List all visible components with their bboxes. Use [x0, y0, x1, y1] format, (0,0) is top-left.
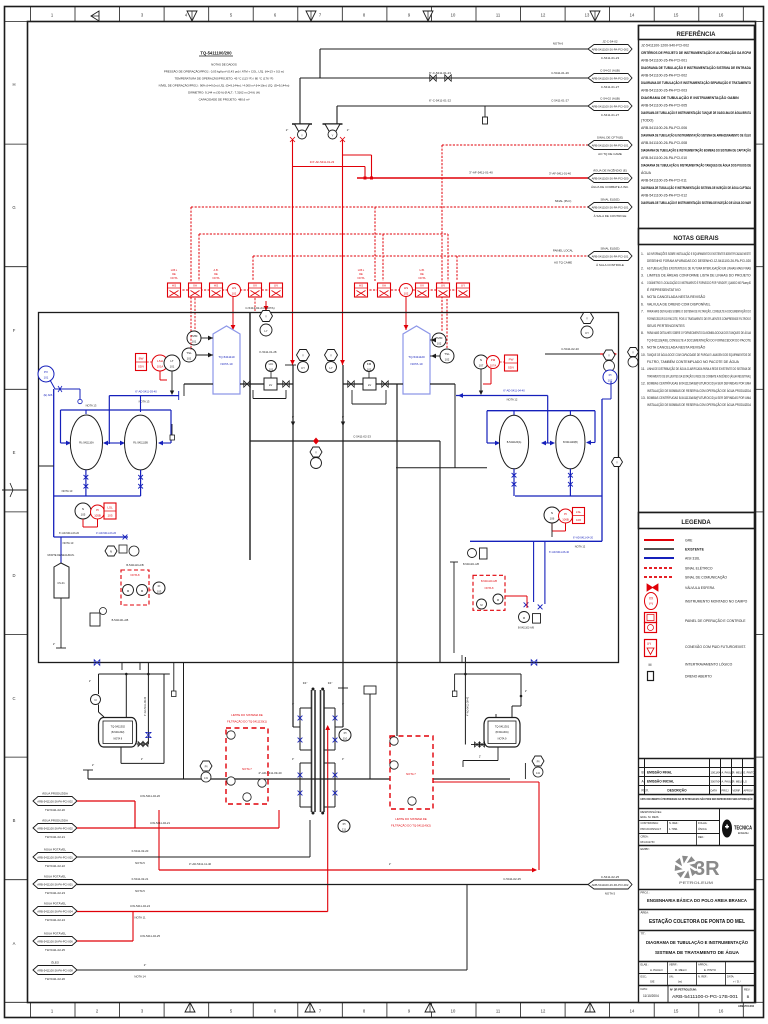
- svg-text:CONEXÃO COM P&ID FUTURO/EXIST.: CONEXÃO COM P&ID FUTURO/EXIST.: [685, 644, 746, 649]
- svg-text:FIL-5411110A: FIL-5411110A: [79, 442, 94, 445]
- svg-text:EMISSÃO FINAL: EMISSÃO FINAL: [647, 770, 672, 775]
- svg-text:PI: PI: [537, 760, 540, 764]
- svg-text:101: 101: [232, 292, 237, 296]
- svg-text:2": 2": [141, 758, 143, 761]
- svg-text:XV: XV: [420, 284, 424, 288]
- svg-text:102: 102: [445, 358, 450, 362]
- svg-text:Y: Y: [301, 134, 303, 138]
- svg-text:3": 3": [292, 702, 294, 706]
- svg-text:PARA MAIS DETALHES SOBRE O SIS: PARA MAIS DETALHES SOBRE O SISTEMA DE FI…: [647, 309, 751, 314]
- svg-text:105B: 105B: [94, 514, 101, 518]
- svg-text:AO TQ DE CAME: AO TQ DE CAME: [598, 152, 622, 156]
- svg-text:10: 10: [451, 1009, 456, 1014]
- svg-text:10.: 10.: [641, 353, 646, 357]
- svg-text:ÁGUA POTÁVEL: ÁGUA POTÁVEL: [44, 902, 67, 906]
- svg-text:A. PAULO: A. PAULO: [722, 780, 734, 784]
- svg-text:LEGENDA: LEGENDA: [681, 520, 711, 526]
- svg-text:NOTA 13: NOTA 13: [62, 489, 73, 493]
- svg-text:MORTE DE SEGURAN.: MORTE DE SEGURAN.: [48, 554, 75, 557]
- svg-text:VALVULA DE DRENO COM DISPONÍVE: VALVULA DE DRENO COM DISPONÍVEL: [647, 302, 711, 306]
- svg-text:XV: XV: [253, 284, 257, 288]
- svg-text:11.: 11.: [641, 367, 646, 371]
- svg-text:ARB-5411100-26-PA-PCI-010: ARB-5411100-26-PA-PCI-010: [641, 156, 687, 160]
- svg-text:DIAGRAMA DE TUBULAÇÃO E INSTRU: DIAGRAMA DE TUBULAÇÃO E INSTRUMENTAÇÃO T…: [641, 110, 751, 115]
- svg-text:ARB-PCI-004: ARB-PCI-004: [738, 1004, 755, 1008]
- svg-text:10/11/04: 10/11/04: [711, 771, 721, 775]
- svg-text:À SALA CONTROLE: À SALA CONTROLE: [596, 263, 624, 267]
- svg-text:DIAGRAMA DE TUBULAÇÃO E INSTRU: DIAGRAMA DE TUBULAÇÃO E INSTRUMENTAÇÃO S…: [641, 133, 751, 138]
- svg-text:AS INFORMAÇÕES SOBRE INSTALAÇÃ: AS INFORMAÇÕES SOBRE INSTALAÇÃO E EQUIPA…: [647, 251, 751, 256]
- svg-text:LV: LV: [269, 383, 272, 387]
- svg-text:DESENHO FORAM APURADAS DO DESE: DESENHO FORAM APURADAS DO DESENHO JZ-541…: [647, 259, 751, 263]
- svg-text:FI: FI: [158, 584, 161, 588]
- svg-text:LSL: LSL: [107, 506, 113, 510]
- svg-text:XX: XX: [649, 597, 654, 601]
- svg-text:NOTA 8: NOTA 8: [130, 573, 140, 577]
- svg-text:ARB-5411100-26-PA-PCI-006: ARB-5411100-26-PA-PCI-006: [37, 939, 73, 943]
- svg-text:DIAGRAMA DE TUBULAÇÃO E INSTRU: DIAGRAMA DE TUBULAÇÃO E INSTRUMENTAÇÃO S…: [641, 200, 751, 205]
- svg-text:ÁGUA POTÁVEL: ÁGUA POTÁVEL: [44, 932, 67, 936]
- svg-text:14: 14: [630, 13, 635, 18]
- svg-text:LY: LY: [264, 329, 267, 333]
- svg-text:SINAL ELE(E): SINAL ELE(E): [600, 247, 619, 251]
- svg-text:DIAGRAMA DE TUBULAÇÃO E INSTRU: DIAGRAMA DE TUBULAÇÃO E INSTRUMENTAÇÃO S…: [641, 80, 751, 85]
- svg-text:DATA: DATA: [711, 789, 718, 793]
- svg-text:6"-AD-5411-04-20: 6"-AD-5411-04-20: [573, 536, 594, 539]
- svg-text:106B: 106B: [562, 518, 569, 522]
- svg-text:NOTA 13: NOTA 13: [63, 541, 74, 545]
- svg-text:ELAB.:: ELAB.:: [641, 963, 649, 967]
- svg-text:PI: PI: [205, 765, 208, 769]
- svg-text:LSL: LSL: [576, 510, 582, 514]
- svg-text:FIL-5411110B: FIL-5411110B: [133, 442, 148, 445]
- svg-text:DIAGRAMA DE TUBULAÇÃO E INSTRU: DIAGRAMA DE TUBULAÇÃO E INSTRUMENTAÇÃO: [646, 939, 748, 946]
- svg-text:(B-5411301): (B-5411301): [495, 731, 508, 734]
- svg-text:H.B.L: H.B.L: [358, 268, 365, 272]
- svg-text:Y: Y: [265, 315, 267, 319]
- svg-text:RESPONSÁVEL:: RESPONSÁVEL:: [641, 810, 663, 814]
- svg-text:NÍVEL DE OPERAÇÃO/PROJ.: 90% (: NÍVEL DE OPERAÇÃO/PROJ.: 90% (H=9,0m) LÍ…: [159, 83, 290, 88]
- svg-text:FILTRAÇÃO DO TQ-5411130(1): FILTRAÇÃO DO TQ-5411130(1): [227, 719, 267, 724]
- svg-text:H: H: [12, 82, 15, 87]
- svg-text:N: N: [110, 550, 112, 554]
- svg-text:LIMITE DO SISTEMA DE: LIMITE DO SISTEMA DE: [395, 817, 427, 821]
- svg-text:3-W-5411-02-21: 3-W-5411-02-21: [150, 821, 171, 825]
- svg-text:ARB-5411100-26-PA-PCI-002: ARB-5411100-26-PA-PCI-002: [592, 47, 629, 51]
- svg-text:NOTA: NOTA: [212, 276, 219, 280]
- svg-text:TMM: TMM: [436, 336, 443, 340]
- svg-text:B: B: [747, 994, 750, 999]
- svg-text:Y: Y: [302, 354, 304, 358]
- svg-text:3/4": 3/4": [303, 681, 308, 685]
- svg-text:SINAL DE COMUNICAÇÃO: SINAL DE COMUNICAÇÃO: [685, 575, 727, 580]
- svg-text:3": 3": [342, 757, 344, 761]
- svg-text:2": 2": [53, 642, 55, 646]
- svg-text:NOTA: NOTA: [170, 276, 177, 280]
- svg-text:ARB-5411100-26-PA-PCI-002: ARB-5411100-26-PA-PCI-002: [592, 883, 629, 887]
- svg-text:12.: 12.: [641, 382, 646, 386]
- svg-text:3-W-5411-02-25: 3-W-5411-02-25: [140, 934, 161, 938]
- svg-text:11: 11: [496, 1009, 501, 1014]
- svg-text:APROV.: APROV.: [744, 789, 754, 793]
- svg-text:B-5411102-A/B: B-5411102-A/B: [518, 627, 534, 630]
- svg-text:PM: PM: [491, 358, 496, 362]
- svg-text:103: 103: [157, 590, 162, 594]
- svg-text:(B-5411302): (B-5411302): [111, 731, 124, 734]
- svg-text:LY: LY: [329, 366, 332, 370]
- svg-text:M: M: [497, 598, 499, 602]
- svg-text:A. PAULO: A. PAULO: [650, 968, 664, 972]
- svg-text:REV.: REV.: [642, 789, 649, 793]
- svg-text:TMM: TMM: [191, 334, 198, 338]
- svg-text:G: G: [12, 205, 15, 210]
- svg-text:Y: Y: [586, 317, 588, 321]
- svg-text:16: 16: [719, 13, 724, 18]
- svg-text:TSL: TSL: [186, 351, 192, 355]
- svg-text:C: C: [12, 696, 15, 701]
- svg-text:ENG. M. REIS: ENG. M. REIS: [641, 815, 659, 819]
- svg-text:C-5411-02-25: C-5411-02-25: [601, 875, 620, 879]
- svg-text:SINAL ELE(E): SINAL ELE(E): [600, 198, 619, 202]
- svg-text:PI: PI: [609, 373, 612, 377]
- svg-text:6"-AD-5411-03-20: 6"-AD-5411-03-20: [59, 532, 80, 535]
- svg-text:NOTA 12: NOTA 12: [507, 398, 518, 402]
- svg-text:Y: Y: [332, 134, 334, 138]
- svg-text:Nº 3R PETROLEUM:: Nº 3R PETROLEUM:: [670, 988, 697, 992]
- svg-text:B-5411101-A/B: B-5411101-A/B: [463, 563, 479, 566]
- svg-text:ARB-5411100-0-PG-17B-001: ARB-5411100-0-PG-17B-001: [672, 994, 739, 999]
- svg-text:1.7091: 1.7091: [669, 827, 678, 831]
- svg-text:C-54-02 (A)(B): C-54-02 (A)(B): [600, 69, 620, 73]
- svg-text:ARB-5411100-26-PA-PCI-011: ARB-5411100-26-PA-PCI-011: [641, 179, 687, 183]
- svg-text:30/07/04: 30/07/04: [711, 780, 722, 784]
- svg-text:HS: HS: [359, 284, 363, 288]
- svg-text:4"-AD-5411-09-40: 4"-AD-5411-09-40: [467, 696, 470, 716]
- svg-text:TW-5411-02-26: TW-5411-02-26: [45, 977, 65, 981]
- svg-text:C-5411-01-26: C-5411-01-26: [551, 71, 569, 75]
- svg-text:M: M: [649, 663, 652, 667]
- svg-text:CAPACIDADE DE PROJETO: 480,6 m: CAPACIDADE DE PROJETO: 480,6 m³: [199, 98, 250, 102]
- svg-text:EXISTENTE: EXISTENTE: [685, 548, 705, 552]
- svg-text:ÁGUA: ÁGUA: [641, 171, 652, 175]
- svg-text:UY: UY: [461, 284, 465, 288]
- svg-text:ARB-5411100-26-PA-PCI-001: ARB-5411100-26-PA-PCI-001: [37, 882, 73, 886]
- svg-text:É REPRESENTATIVO: É REPRESENTATIVO: [647, 287, 681, 292]
- svg-text:DIAGRAMA DE TUBULAÇÃO E INSTRU: DIAGRAMA DE TUBULAÇÃO E INSTRUMENTAÇÃO S…: [641, 185, 751, 190]
- svg-text:NOTA 6: NOTA 6: [553, 42, 564, 46]
- svg-text:LT: LT: [170, 359, 173, 363]
- svg-text:TQ-5411120: TQ-5411120: [408, 355, 425, 359]
- svg-text:TÍT.:: TÍT.:: [641, 932, 647, 936]
- svg-text:DE: DE: [420, 272, 424, 276]
- svg-text:REF.:: REF.:: [698, 835, 705, 839]
- svg-text:DIAGRAMA DE TUBULAÇÃO E INSTRU: DIAGRAMA DE TUBULAÇÃO E INSTRUMENTAÇÃO S…: [641, 65, 751, 70]
- svg-text:101: 101: [170, 365, 175, 369]
- svg-text:R. MELO: R. MELO: [733, 780, 744, 784]
- svg-text:141: 141: [536, 772, 541, 775]
- svg-text:101A: 101A: [157, 365, 164, 369]
- svg-text:LIC: LIC: [269, 362, 275, 366]
- svg-text:14: 14: [630, 1009, 635, 1014]
- svg-text:3"-AF-5411-01-40: 3"-AF-5411-01-40: [469, 171, 493, 175]
- svg-text:UY: UY: [585, 331, 589, 335]
- svg-text:11: 11: [496, 13, 501, 18]
- svg-text:3": 3": [292, 757, 294, 761]
- svg-text:ÁGUA POTÁVEL: ÁGUA POTÁVEL: [44, 848, 67, 852]
- svg-text:SINAL DE CFTV(E): SINAL DE CFTV(E): [597, 136, 623, 140]
- svg-text:C-5411-02-24 (NOTA): C-5411-02-24 (NOTA): [245, 306, 274, 310]
- svg-text:XA: XA: [382, 284, 386, 288]
- svg-text:(TODO): (TODO): [641, 119, 653, 123]
- svg-text:+ / D /: + / D /: [733, 980, 741, 984]
- svg-text:ÓLEO: ÓLEO: [51, 960, 60, 965]
- svg-text:6"-C-5411-01-23: 6"-C-5411-01-23: [429, 71, 451, 75]
- svg-text:N: N: [82, 507, 84, 511]
- svg-text:ÁGUA DE COMBATE A INC.: ÁGUA DE COMBATE A INC.: [591, 185, 629, 189]
- svg-text:6"-C-5411-01-22: 6"-C-5411-01-22: [429, 99, 451, 103]
- svg-text:TEMPERATURA DE OPERAÇÃO/PROJET: TEMPERATURA DE OPERAÇÃO/PROJETO: 45 °C (…: [175, 76, 274, 81]
- svg-text:R. MELO: R. MELO: [733, 771, 744, 775]
- svg-text:107A: 107A: [490, 364, 497, 368]
- svg-text:NOTA 9: NOTA 9: [498, 738, 507, 741]
- svg-text:B: B: [13, 818, 16, 823]
- svg-text:C-54-02 (A)(B): C-54-02 (A)(B): [600, 97, 620, 101]
- svg-text:PROJ.: PROJ.: [722, 789, 730, 793]
- svg-text:INTERTRAVAMENTO LÓGICO: INTERTRAVAMENTO LÓGICO: [685, 662, 733, 667]
- svg-text:C-5411-02-23: C-5411-02-23: [353, 435, 371, 439]
- svg-text:2": 2": [286, 128, 289, 132]
- svg-text:ARB-5411100-26-PA-PCI-002: ARB-5411100-26-PA-PCI-002: [37, 826, 73, 830]
- svg-text:C-5411-02-20: C-5411-02-20: [561, 347, 579, 351]
- svg-text:AISI 316L: AISI 316L: [685, 557, 700, 561]
- svg-text:10: 10: [451, 13, 456, 18]
- svg-text:9.: 9.: [641, 346, 644, 350]
- svg-text:NOTA 7: NOTA 7: [242, 767, 252, 771]
- svg-text:FOLHA:: FOLHA:: [698, 821, 708, 825]
- svg-text:DIAGRAMA DE TUBULAÇÃO E INSTRU: DIAGRAMA DE TUBULAÇÃO E INSTRUMENTAÇÃO G…: [641, 95, 739, 100]
- svg-text:AS TUBULAÇÕES EXISTENTES E DE: AS TUBULAÇÕES EXISTENTES E DE FUTURA INT…: [647, 265, 752, 270]
- svg-text:NOTA 11: NOTA 11: [134, 916, 146, 920]
- svg-text:ARB-5411100-26-PA-PCI-005: ARB-5411100-26-PA-PCI-005: [641, 104, 687, 108]
- svg-text:ESTE DOCUMENTO É PROPRIEDADE D: ESTE DOCUMENTO É PROPRIEDADE DA 3R PETRO…: [641, 796, 753, 801]
- svg-text:3/4": 3/4": [328, 681, 333, 685]
- svg-text:AO TQ CAME: AO TQ CAME: [554, 261, 572, 265]
- svg-text:D: D: [12, 573, 15, 578]
- svg-text:ARB-5411100-26-PA-PCI-020: ARB-5411100-26-PA-PCI-020: [592, 76, 629, 80]
- svg-text:ÁGUA DE INCÊNDIO (E): ÁGUA DE INCÊNDIO (E): [593, 168, 627, 173]
- svg-text:F-5411-02-21: F-5411-02-21: [132, 877, 149, 881]
- svg-text:102: 102: [608, 379, 613, 383]
- svg-text:ENGENH.: ENGENH.: [738, 831, 749, 835]
- svg-text:EMISSÃO INICIAL: EMISSÃO INICIAL: [647, 779, 674, 784]
- svg-text:INSTRUMENTO MONTADO NO CAMPO: INSTRUMENTO MONTADO NO CAMPO: [685, 600, 748, 604]
- svg-text:ÁGUA PRODUZIDA: ÁGUA PRODUZIDA: [42, 819, 68, 823]
- svg-text:106: 106: [576, 518, 581, 522]
- svg-text:7.: 7.: [641, 310, 644, 314]
- svg-text:TSL: TSL: [444, 352, 450, 356]
- svg-text:A: A: [13, 941, 16, 946]
- svg-text:2": 2": [525, 690, 527, 693]
- svg-text:2": 2": [479, 756, 481, 759]
- svg-text:TW-5411-02-25: TW-5411-02-25: [45, 948, 65, 952]
- svg-text:B-5411120(B): B-5411120(B): [563, 441, 578, 444]
- svg-text:DIAGRAMA DE TUBULAÇÃO E INSTRU: DIAGRAMA DE TUBULAÇÃO E INSTRUMENTAÇÃO T…: [641, 163, 751, 168]
- svg-text:3"-AD-5411-11-40: 3"-AD-5411-11-40: [189, 862, 212, 866]
- svg-text:2": 2": [92, 763, 94, 767]
- svg-text:DIÂMETRO: 9,144 m (30 ft) Ø AL: DIÂMETRO: 9,144 m (30 ft) Ø ALT.: 7,3162…: [188, 91, 260, 95]
- svg-text:F-5411-02-20: F-5411-02-20: [132, 849, 149, 853]
- svg-text:TW-5411-02-21: TW-5411-02-21: [45, 835, 65, 839]
- svg-text:ARB-5411100-26-PA-PCI-101: ARB-5411100-26-PA-PCI-101: [592, 254, 629, 258]
- svg-text:HS: HS: [232, 286, 236, 290]
- svg-text:B-5411120(A): B-5411120(A): [507, 441, 522, 444]
- svg-text:PV: PV: [44, 370, 48, 374]
- svg-text:PI: PI: [564, 512, 567, 516]
- svg-text:6"-AD-5411-03-40: 6"-AD-5411-03-40: [135, 390, 157, 394]
- svg-text:ESTAÇÃO COLETORA DE PONTA DO M: ESTAÇÃO COLETORA DE PONTA DO MEL: [649, 918, 746, 925]
- svg-text:M: M: [480, 603, 482, 607]
- svg-text:2": 2": [144, 963, 146, 967]
- svg-text:6"-AD-5411-04-40: 6"-AD-5411-04-40: [503, 389, 525, 393]
- svg-text:PI: PI: [344, 731, 347, 735]
- svg-text:PETROLEUM: PETROLEUM: [679, 881, 713, 885]
- svg-text:JZ-5411100-1200-940-PCI-002: JZ-5411100-1200-940-PCI-002: [641, 44, 689, 48]
- svg-text:110: 110: [343, 737, 348, 741]
- svg-text:TW-5411-02-23: TW-5411-02-23: [45, 891, 65, 895]
- svg-text:FILTRO, TAMBÉM CONTEMPLADO NO: FILTRO, TAMBÉM CONTEMPLADO NO PACOTE DE …: [647, 359, 740, 364]
- svg-text:DESCRIÇÃO: DESCRIÇÃO: [667, 788, 687, 793]
- svg-text:LIMITES DE ÁREAS CONFORME LIST: LIMITES DE ÁREAS CONFORME LISTA DE LINHA…: [647, 274, 751, 278]
- svg-text:102: 102: [367, 368, 372, 372]
- svg-text:13: 13: [585, 13, 590, 18]
- svg-text:4"-AD-5411-09-40: 4"-AD-5411-09-40: [258, 771, 282, 775]
- svg-text:NOTAS GERAIS: NOTAS GERAIS: [673, 236, 718, 242]
- svg-text:CONTRATADA:: CONTRATADA:: [641, 821, 659, 825]
- svg-text:105: 105: [107, 514, 112, 518]
- svg-text:TQ-5411110: TQ-5411110: [218, 355, 235, 359]
- svg-text:2": 2": [89, 680, 91, 683]
- svg-text:3-W-5411-02-24: 3-W-5411-02-24: [130, 904, 151, 908]
- svg-text:NOTA CANCELADA NESTA REVISÃO: NOTA CANCELADA NESTA REVISÃO: [647, 345, 706, 350]
- svg-text:VERIF.:: VERIF.:: [669, 963, 678, 967]
- svg-text:2": 2": [389, 862, 391, 866]
- svg-text:3-W-5411-02-20: 3-W-5411-02-20: [140, 794, 161, 798]
- svg-text:DIAGRAMA DE TUBULAÇÃO E INSTRU: DIAGRAMA DE TUBULAÇÃO E INSTRUMENTAÇÃO B…: [641, 148, 751, 153]
- svg-text:(E) A06: (E) A06: [44, 393, 53, 397]
- svg-text:5.: 5.: [641, 295, 644, 299]
- svg-text:N: N: [480, 358, 482, 362]
- svg-text:105: 105: [81, 513, 86, 517]
- svg-text:1.: 1.: [641, 252, 644, 256]
- svg-text:ARB-5411100-26-PA-PCI-008: ARB-5411100-26-PA-PCI-008: [37, 968, 73, 972]
- svg-text:ARB-5411100-26-PA-PCI-008: ARB-5411100-26-PA-PCI-008: [641, 141, 687, 145]
- svg-text:B-5411110-A/B: B-5411110-A/B: [126, 563, 143, 567]
- svg-text:INSTALAÇÃO DE BOMBAS DE RESERV: INSTALAÇÃO DE BOMBAS DE RESERVA COM OPER…: [647, 388, 752, 393]
- svg-text:LIMITE DO SISTEMA DE: LIMITE DO SISTEMA DE: [231, 713, 263, 717]
- svg-text:NOTA 8: NOTA 8: [485, 587, 494, 590]
- svg-text:102: 102: [437, 342, 442, 346]
- svg-text:H.B.L: H.B.L: [171, 268, 178, 272]
- svg-text:101: 101: [44, 376, 49, 380]
- svg-text:UV: UV: [274, 284, 278, 288]
- svg-text:E: E: [13, 450, 16, 455]
- svg-text:Y: Y: [632, 351, 634, 355]
- svg-text:NOTA: NOTA: [357, 276, 364, 280]
- svg-text:12: 12: [541, 13, 546, 18]
- svg-text:À SALA DE CONTROLE: À SALA DE CONTROLE: [594, 214, 627, 218]
- svg-text:11/10/2004: 11/10/2004: [643, 994, 659, 998]
- svg-text:JZ-C-54-02: JZ-C-54-02: [602, 40, 618, 44]
- svg-text:4"-AD-5411-03-26: 4"-AD-5411-03-26: [96, 532, 117, 535]
- svg-text:ÁGUA POTÁVEL: ÁGUA POTÁVEL: [44, 875, 67, 879]
- svg-text:6"-AD-5411-06-40: 6"-AD-5411-06-40: [549, 551, 570, 554]
- svg-text:XA: XA: [193, 284, 197, 288]
- svg-text:TRATAMENTO DE EFLUENTES DA EST: TRATAMENTO DE EFLUENTES DA ESTAÇÃO E RED…: [647, 373, 751, 378]
- svg-text:REV.: REV.: [744, 988, 750, 992]
- svg-text:PW: PW: [509, 358, 514, 362]
- svg-text:C-5411-01-27: C-5411-01-27: [551, 99, 569, 103]
- svg-text:SINAL (PLC): SINAL (PLC): [555, 199, 572, 203]
- svg-text:TANQUE DE ÁGUA DOCE COM CAPACI: TANQUE DE ÁGUA DOCE COM CAPACIDADE DE PU…: [647, 353, 751, 357]
- svg-text:TQ-5411100/200: TQ-5411100/200: [200, 51, 232, 56]
- svg-text:EMPR.:: EMPR.:: [641, 847, 651, 851]
- svg-text:SISTEMA DE TRATAMENTO DE ÁGUA: SISTEMA DE TRATAMENTO DE ÁGUA: [655, 949, 740, 956]
- svg-text:TQ-5411302: TQ-5411302: [111, 725, 126, 729]
- svg-text:Y: Y: [616, 461, 618, 465]
- svg-text:TW-5411-02-22: TW-5411-02-22: [45, 864, 65, 868]
- svg-text:NOTA 10: NOTA 10: [410, 362, 422, 366]
- svg-text:Y: Y: [608, 354, 610, 358]
- svg-text:2.: 2.: [641, 266, 644, 270]
- svg-text:NOTA 5: NOTA 5: [135, 861, 145, 865]
- svg-text:DE: DE: [359, 272, 363, 276]
- svg-text:RN-0417/D: RN-0417/D: [641, 840, 655, 844]
- svg-text:3.: 3.: [641, 274, 644, 278]
- svg-text:TW-5411-02-20: TW-5411-02-20: [45, 808, 65, 812]
- svg-text:131: 131: [204, 777, 209, 780]
- svg-text:VERIF.: VERIF.: [733, 789, 741, 793]
- svg-text:E. PINTO: E. PINTO: [704, 968, 717, 972]
- svg-text:A. PAULO: A. PAULO: [722, 771, 734, 775]
- svg-text:ARB-5411100-26-PA-PCI-006: ARB-5411100-26-PA-PCI-006: [641, 126, 687, 130]
- svg-text:N. REF.:: N. REF.:: [669, 821, 679, 825]
- svg-text:INSTALAÇÃO DE BOMBAS DE RESERV: INSTALAÇÃO DE BOMBAS DE RESERVA COM OPER…: [647, 402, 752, 407]
- svg-text:REFERÊNCIA: REFERÊNCIA: [676, 30, 716, 38]
- svg-text:GRE: GRE: [685, 539, 693, 543]
- svg-text:13.: 13.: [641, 396, 646, 400]
- svg-text:107: 107: [479, 364, 484, 368]
- svg-text:NOTA 5: NOTA 5: [605, 892, 616, 896]
- svg-text:101: 101: [187, 357, 192, 361]
- svg-text:ARB-5411100-26-PA-PCI-020: ARB-5411100-26-PA-PCI-020: [592, 176, 629, 180]
- svg-text:3/4"-AF-5411-01-23: 3/4"-AF-5411-01-23: [310, 160, 335, 164]
- svg-text:C-5411-01-27: C-5411-01-27: [601, 113, 620, 117]
- svg-text:BOMBAS CENTRÍFUGAS B-5411130A/: BOMBAS CENTRÍFUGAS B-5411130A/B/(FUTURO/…: [647, 396, 752, 400]
- svg-text:SDV: SDV: [508, 366, 514, 370]
- svg-text:PROJCONSULT: PROJCONSULT: [641, 827, 662, 831]
- svg-text:12: 12: [541, 1009, 546, 1014]
- svg-text:HS: HS: [172, 284, 176, 288]
- svg-text:C-5411-01-23: C-5411-01-23: [601, 56, 620, 60]
- svg-text:CRITÉRIOS DE PROJETO DE INSTRU: CRITÉRIOS DE PROJETO DE INSTRUMENTAÇÃO E…: [641, 50, 751, 55]
- svg-text:ÁREA:: ÁREA:: [641, 911, 650, 915]
- svg-text:UN.:: UN.:: [669, 975, 674, 979]
- svg-text:SEUS PERTENCENTES: SEUS PERTENCENTES: [647, 324, 685, 328]
- svg-text:Y: Y: [330, 354, 332, 358]
- svg-text:H.B.: H.B.: [419, 268, 424, 272]
- svg-text:PI: PI: [343, 822, 346, 826]
- svg-text:ESC.:: ESC.:: [641, 975, 648, 979]
